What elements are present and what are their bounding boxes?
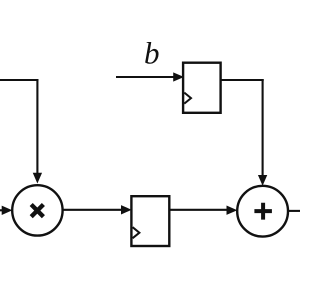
arrowhead into adder left bbox=[227, 206, 236, 214]
multiplier M1 times-symbol bbox=[31, 205, 43, 217]
adder A1 plus-symbol bbox=[254, 203, 272, 220]
arrowhead into multiplier top bbox=[34, 173, 42, 182]
arrowhead into adder top bbox=[259, 176, 267, 185]
register Z2 body bbox=[183, 63, 221, 113]
wire: input-b horizontal segment bbox=[116, 76, 174, 78]
wire: register Z1 output to adder bbox=[169, 209, 227, 211]
register Z1 body bbox=[131, 196, 169, 246]
wire: register Z2 output horizontal run bbox=[221, 79, 264, 81]
wire: input-a vertical drop toward multiplier bbox=[36, 79, 38, 174]
register Z1 clock chevron bbox=[133, 227, 140, 238]
arrowhead into multiplier left bbox=[2, 206, 11, 214]
arrowhead into register Z1 bbox=[122, 206, 131, 214]
multiplier M1 circle bbox=[12, 185, 62, 235]
register Z2 clock chevron bbox=[184, 93, 191, 104]
wire: input-a horizontal segment from left edge bbox=[0, 79, 39, 81]
wire: adder output to right edge bbox=[288, 210, 300, 212]
wire: input stub into multiplier left bbox=[0, 209, 4, 211]
wire: multiplier output to register Z1 bbox=[63, 209, 123, 211]
arrowhead into register Z2 bbox=[174, 73, 183, 81]
wire: register Z2 output vertical drop to adder bbox=[262, 79, 264, 176]
label b (input to register Z2) bbox=[145, 42, 158, 64]
adder A1 circle bbox=[237, 186, 288, 237]
